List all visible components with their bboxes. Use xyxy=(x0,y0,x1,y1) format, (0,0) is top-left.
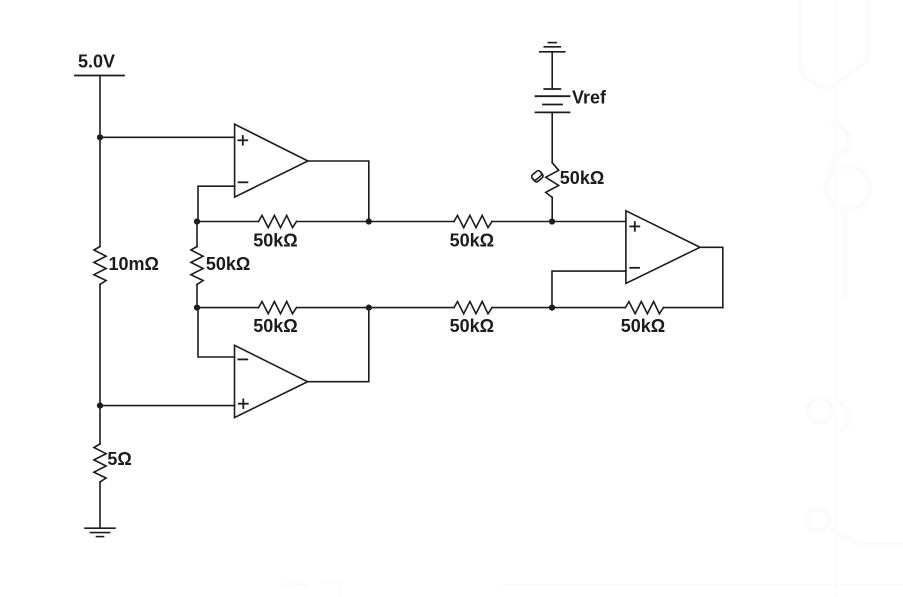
resistor R6 50kΩ (bottom left) xyxy=(259,302,297,314)
wire U2 - input xyxy=(198,308,235,357)
wire trimmer to node E xyxy=(551,197,553,221)
svg-text:50kΩ: 50kΩ xyxy=(450,316,494,336)
svg-text:50kΩ: 50kΩ xyxy=(206,254,250,274)
resistor R5 50kΩ (gain, vertical mid) xyxy=(191,222,203,308)
svg-text:10mΩ: 10mΩ xyxy=(109,254,159,274)
power rail 5.0V bar xyxy=(75,75,124,77)
wire bottom row segment 4 xyxy=(552,307,625,309)
wire left rail bottom xyxy=(99,482,101,528)
svg-text:50kΩ: 50kΩ xyxy=(560,168,604,188)
label R4 value 50kΩ xyxy=(450,231,494,251)
wire battery to trimmer xyxy=(551,112,553,162)
wire U2 output xyxy=(308,308,369,382)
svg-text:50kΩ: 50kΩ xyxy=(621,316,665,336)
wire top row segment 1 xyxy=(197,221,259,223)
label R7 value 50kΩ xyxy=(450,316,494,336)
battery V1 Vref xyxy=(536,89,570,112)
wire top row segment 3 xyxy=(492,221,626,223)
ground GND1 top right xyxy=(540,43,565,52)
wire bottom row segment 2 xyxy=(297,307,455,309)
resistor R3 50kΩ (top left) xyxy=(259,215,297,227)
label R2 value 5Ω xyxy=(107,449,131,469)
wire bottom row segment 3 xyxy=(492,307,552,309)
faint watermark curves right side xyxy=(800,0,903,545)
wire U3 output xyxy=(700,247,723,307)
wire U3 - input xyxy=(552,271,626,308)
faint watermark bottom line xyxy=(280,582,903,597)
label R3 value 50kΩ xyxy=(253,231,297,251)
node H (bottom row right) xyxy=(549,305,555,311)
svg-text:5Ω: 5Ω xyxy=(107,449,131,469)
svg-text:Vref: Vref xyxy=(572,88,607,108)
label V1 Vref xyxy=(572,88,607,108)
wire bottom row segment 1 xyxy=(197,307,259,309)
op-amp U3 xyxy=(626,211,700,284)
label R1 value 10mΩ xyxy=(109,254,159,274)
wire U1 + input xyxy=(100,136,235,138)
svg-text:50kΩ: 50kΩ xyxy=(253,316,297,336)
svg-text:50kΩ: 50kΩ xyxy=(450,231,494,251)
wire GND1 to battery xyxy=(551,52,553,89)
op-amp U2 xyxy=(235,345,308,417)
wire left rail middle xyxy=(99,285,101,445)
wire U1 - input xyxy=(198,186,235,221)
label R5 value 50kΩ xyxy=(206,254,250,274)
node F (bottom row left) xyxy=(194,305,200,311)
op-amp U1 xyxy=(235,124,308,197)
potentiometer R9 screw symbol xyxy=(531,170,544,183)
node D (top row mid) xyxy=(366,218,372,224)
node B (rail to op-amp U2 +) xyxy=(97,403,103,409)
wire U2 + input xyxy=(100,405,235,407)
wire bottom row segment 5 xyxy=(663,307,722,309)
label R8 value 50kΩ xyxy=(621,316,665,336)
resistor R4 50kΩ (top mid) xyxy=(454,215,492,227)
faint watermark vertical line xyxy=(834,0,836,597)
resistor R2 5Ω xyxy=(94,444,106,482)
wire left rail top xyxy=(99,76,101,247)
svg-text:5.0V: 5.0V xyxy=(78,52,115,72)
label 5.0V xyxy=(78,52,115,72)
node A (rail to op-amp U1 +) xyxy=(97,134,103,140)
resistor R1 10mΩ xyxy=(94,247,106,285)
resistor R8 50kΩ (feedback) xyxy=(625,302,663,314)
wire top row segment 2 xyxy=(297,221,455,223)
wire U1 output xyxy=(308,161,369,222)
potentiometer R9 50kΩ (trimmer) xyxy=(546,163,559,198)
node G (bottom row mid) xyxy=(366,305,372,311)
label R6 value 50kΩ xyxy=(253,316,297,336)
node E (top row right, trimmer tap) xyxy=(549,218,555,224)
resistor R7 50kΩ (bottom mid) xyxy=(454,302,492,314)
node C (top row left) xyxy=(194,218,200,224)
label R9 value 50kΩ xyxy=(560,168,604,188)
ground GND2 bottom left xyxy=(85,528,115,536)
svg-text:50kΩ: 50kΩ xyxy=(253,231,297,251)
